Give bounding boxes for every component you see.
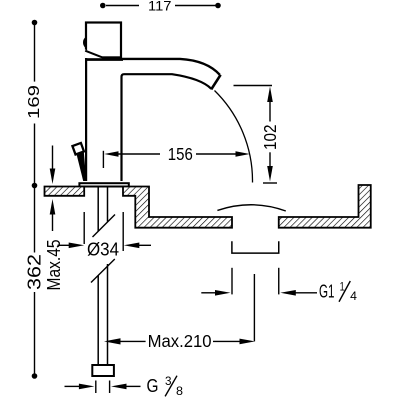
faucet body top thick edge: [85, 58, 123, 61]
svg-text:4: 4: [350, 291, 357, 303]
dimension 156 line right: [196, 153, 236, 155]
handle lever white cover: [85, 49, 105, 58]
dimension Max.45 bottom arrow: [50, 199, 56, 215]
dimension Max.210 right arrow: [240, 339, 256, 345]
water stream arc: [215, 91, 253, 183]
spout top edge: [121, 59, 220, 75]
dimension 102 bottom extension line: [263, 182, 277, 184]
svg-text:G1: G1: [319, 282, 335, 302]
G 3/8 left tick: [95, 381, 97, 394]
drain pull rod: [77, 151, 87, 181]
G 3/8 right arrow shaft: [125, 385, 141, 387]
G1 1/4 left arrow shaft: [201, 292, 217, 294]
svg-text:156: 156: [168, 144, 193, 164]
G 3/8 left arrow: [79, 384, 95, 390]
dimension 156 line left: [117, 153, 160, 155]
drain centerline: [253, 274, 255, 341]
countertop left slab: [45, 187, 85, 196]
handle bottom edge right part: [103, 56, 122, 58]
dimension 117 left dot: [100, 3, 106, 9]
base plate: [79, 183, 128, 186]
basin floor arc over drain: [217, 205, 285, 211]
basin right piece: [279, 185, 371, 228]
faucet body left edge: [85, 58, 87, 181]
dimension 169 top dot: [32, 20, 38, 26]
svg-text:G: G: [147, 376, 159, 396]
dimension Max.45 bottom arrow shaft: [52, 213, 54, 231]
dimension Max.210 left arrow: [104, 338, 121, 344]
G 3/8 left arrow shaft: [65, 385, 81, 387]
dimension O34 right extension line: [122, 212, 124, 251]
dimension O34 left arrow: [69, 243, 85, 249]
svg-text:169: 169: [26, 85, 43, 119]
supply pipe right line lower: [107, 264, 109, 365]
dimension 156 right arrow: [236, 151, 250, 156]
G 3/8 right tick: [109, 381, 111, 394]
dimension middle dot: [32, 183, 38, 189]
svg-text:117: 117: [148, 0, 172, 14]
pipe end nut: [92, 365, 114, 376]
dimension 102 top extension line: [234, 85, 273, 87]
svg-text:Max.45: Max.45: [44, 240, 64, 291]
pipe break slash 2: [91, 259, 115, 283]
dimension 102 bottom arrow: [267, 166, 273, 182]
faucet handle block: [86, 23, 121, 58]
svg-text:Ø34: Ø34: [87, 240, 119, 260]
dimension 117 line: [106, 5, 216, 7]
svg-text:102: 102: [260, 125, 280, 151]
dimension O34 left extension line: [83, 212, 85, 244]
dimension O34 right arrow shaft: [138, 244, 152, 246]
dimension 102 vertical line upper: [269, 100, 271, 122]
G1 1/4 fraction slash: [339, 281, 350, 302]
G 3/8 fraction slash: [165, 376, 177, 397]
pipe break slash 1: [93, 215, 116, 238]
spout tip cut: [211, 75, 220, 90]
drain outline: [232, 241, 279, 253]
G1 1/4 right arrow: [280, 290, 296, 296]
supply pipe right line upper: [107, 187, 109, 222]
svg-text:8: 8: [176, 386, 183, 398]
G1 1/4 left arrow: [215, 290, 231, 296]
G1 1/4 right extension line: [278, 268, 280, 295]
dimension 156 centerline tick: [102, 151, 104, 168]
dimension 102 vertical line lower: [269, 152, 271, 168]
drain rod grip: [72, 143, 84, 155]
G 3/8 right arrow: [111, 384, 127, 390]
countertop right stair piece: [123, 187, 232, 228]
spout inner edge: [122, 74, 212, 181]
handle pivot circle: [84, 37, 96, 49]
dimension O34 right arrow: [124, 243, 140, 249]
dimension 117 right dot: [215, 3, 221, 9]
dimension 362 bottom dot: [32, 373, 38, 379]
G1 1/4 right arrow shaft: [294, 292, 317, 294]
dimension 169/362 vertical line: [34, 23, 36, 377]
dimension O34 left arrow shaft: [58, 244, 73, 246]
dimension Max.210 line left: [119, 340, 146, 342]
dimension Max.45 top arrow shaft: [52, 146, 54, 173]
svg-text:362: 362: [24, 254, 44, 290]
dimension 156 left arrow: [104, 151, 118, 156]
G1 1/4 left extension line: [231, 268, 233, 295]
dimension 102 top arrow: [267, 87, 273, 103]
dimension Max.210 line right: [213, 340, 242, 342]
faucet body and spout fill: [85, 59, 220, 182]
supply pipe left line upper: [97, 187, 99, 231]
handle lever diagonal: [85, 51, 104, 58]
svg-text:Max.210: Max.210: [148, 331, 212, 351]
supply pipe left line lower: [97, 276, 99, 365]
dimension Max.45 top arrow: [50, 169, 56, 185]
